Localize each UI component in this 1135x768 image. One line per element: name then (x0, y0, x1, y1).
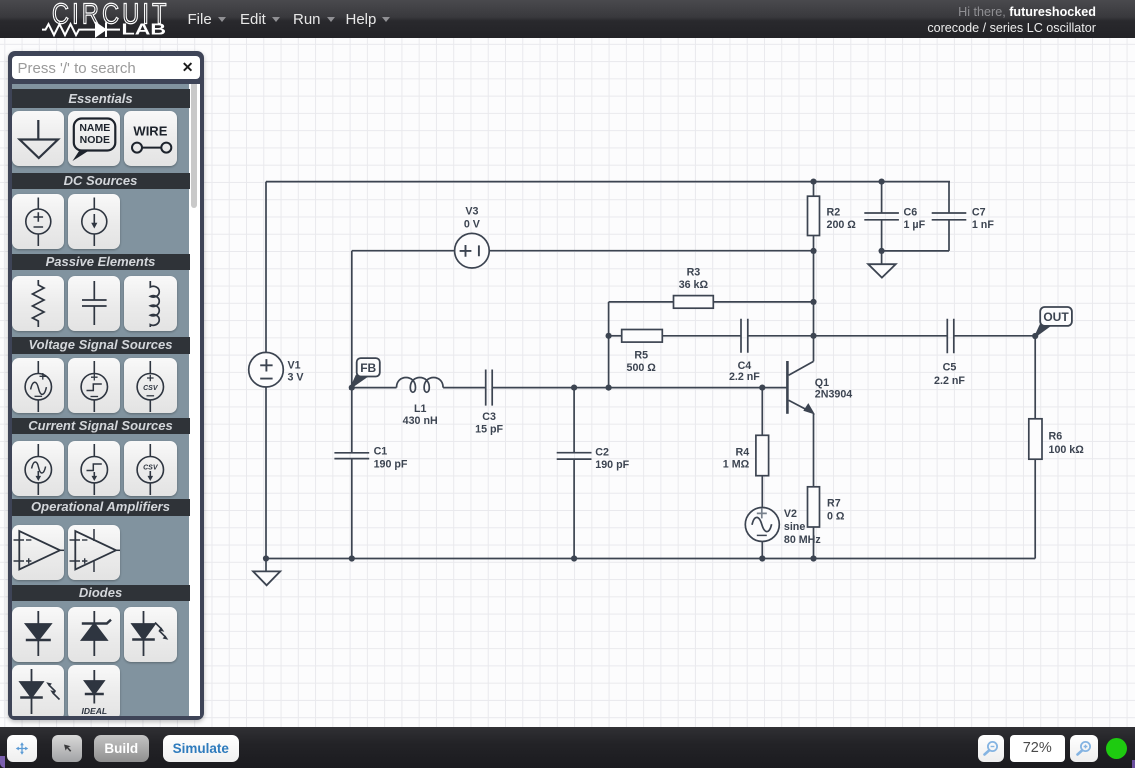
svg-text:CSV: CSV (143, 385, 159, 392)
junction R7 bottom (810, 555, 816, 561)
label C2 value (595, 446, 629, 471)
wire V3 left (352, 250, 455, 252)
capacitor C7 (932, 182, 967, 251)
label C6 value (904, 207, 926, 232)
label R6 value (1049, 431, 1085, 456)
junction R5 branch base rail (606, 385, 612, 391)
resistor R6 (1029, 336, 1042, 559)
palette step current source button (68, 441, 121, 496)
svg-text:WIRE: WIRE (133, 123, 167, 138)
label V2 value (784, 508, 821, 546)
ground (C6/C7) (868, 251, 896, 278)
wire C6-C7 bottom rail (882, 250, 949, 252)
svg-text:190 pF: 190 pF (595, 459, 629, 471)
svg-text:NODE: NODE (79, 134, 109, 146)
svg-text:IDEAL: IDEAL (81, 706, 107, 716)
purple corner left (0, 756, 5, 768)
svg-text:36 kΩ: 36 kΩ (679, 279, 709, 291)
palette DC voltage source button (12, 194, 65, 249)
cursor tool button (52, 735, 82, 762)
wire emitter vertical (813, 413, 815, 486)
junction C6 bottom / ground rail (879, 248, 885, 254)
node OUT flag (1035, 307, 1072, 336)
junction V1 bottom (263, 555, 269, 561)
palette step voltage source button (68, 358, 121, 413)
svg-text:FB: FB (360, 361, 376, 375)
palette ground button (12, 111, 65, 166)
svg-text:C5: C5 (943, 361, 957, 373)
label C5 value (934, 361, 965, 387)
junction C2 top (571, 385, 577, 391)
svg-text:R6: R6 (1049, 431, 1063, 443)
svg-text:Q1: Q1 (815, 377, 829, 389)
svg-text:15 pF: 15 pF (475, 424, 503, 436)
svg-text:C1: C1 (374, 446, 388, 458)
zoom out button (978, 735, 1004, 762)
wire top rail (266, 181, 950, 183)
svg-text:OUT: OUT (1043, 310, 1069, 324)
capacitor C3 (486, 370, 493, 406)
junction C6 top rail (879, 179, 885, 185)
palette capacitor button (68, 276, 121, 331)
voltage source V2 (745, 508, 779, 542)
junction R3 rail right (810, 299, 816, 305)
wire middle rail left (352, 387, 397, 389)
node FB flag (351, 358, 380, 388)
status green circle (1106, 738, 1127, 759)
zoom level box (1010, 735, 1066, 762)
wire R7 to bottom rail (813, 527, 815, 559)
svg-text:sine: sine (784, 521, 805, 533)
label C4 value (729, 360, 760, 383)
palette wire button (124, 111, 177, 166)
resistor R7 (808, 487, 820, 527)
junction V2 bottom (759, 555, 765, 561)
svg-text:R4: R4 (736, 447, 750, 459)
svg-text:200 Ω: 200 Ω (827, 219, 857, 231)
svg-text:CSV: CSV (143, 464, 159, 471)
inductor L1 (397, 377, 444, 392)
palette name node button (68, 111, 121, 166)
svg-text:C3: C3 (482, 411, 496, 423)
Simulate button (163, 735, 239, 762)
palette CSV voltage source button (124, 358, 177, 413)
palette DC current source button (68, 194, 121, 249)
wire left vertical (V1 bottom) (265, 387, 267, 559)
svg-text:2.2 nF: 2.2 nF (729, 371, 760, 383)
wire bottom rail (266, 558, 1035, 560)
wire C5 to OUT node (954, 335, 1035, 337)
junction V3 rail / R2 bottom (810, 248, 816, 254)
voltage source V1 (249, 352, 284, 387)
junction C2 bottom (571, 555, 577, 561)
wire L1 to C3 (443, 387, 486, 389)
svg-text:0 V: 0 V (464, 218, 481, 230)
label L1 value (403, 403, 438, 427)
wire C4 to collector node (748, 335, 814, 337)
svg-text:190 pF: 190 pF (374, 458, 408, 470)
label R5 value (627, 349, 657, 374)
svg-text:C6: C6 (904, 207, 918, 219)
palette inductor button (124, 276, 177, 331)
purple corner right (1132, 760, 1135, 768)
label R2 value (827, 207, 857, 232)
wire R5 to C4 (662, 335, 741, 337)
transistor Q1 (787, 361, 814, 414)
resistor R3 (674, 296, 714, 309)
palette resistor button (12, 276, 65, 331)
svg-text:V2: V2 (784, 508, 797, 520)
svg-text:1 MΩ: 1 MΩ (723, 459, 750, 471)
junction R2 top rail (810, 179, 816, 185)
wire left vertical (V1 top) (265, 182, 267, 353)
wire R3 rail left (609, 301, 674, 303)
ground (bottom left) (253, 559, 280, 586)
palette sine voltage source button (12, 358, 65, 413)
palette CSV current source button (124, 441, 177, 496)
svg-text:500 Ω: 500 Ω (627, 362, 657, 374)
label V3 value (464, 206, 481, 231)
label C1 value (374, 446, 408, 471)
svg-text:100 kΩ: 100 kΩ (1049, 444, 1085, 456)
svg-text:1 µF: 1 µF (904, 219, 926, 231)
junction node OUT (1032, 333, 1038, 339)
svg-text:1 nF: 1 nF (972, 219, 994, 231)
voltage source V3 (455, 233, 490, 268)
wire R5 branch vertical (608, 302, 610, 388)
capacitor C1 (334, 388, 369, 559)
palette op-amp with power pins button (68, 525, 121, 580)
label C3 value (475, 411, 503, 436)
wire R3 rail right (713, 301, 813, 303)
svg-text:430 nH: 430 nH (403, 415, 438, 427)
label Q1 type (815, 377, 852, 400)
wire right vertical R2-collector (813, 236, 815, 362)
capacitor C5 (947, 319, 954, 354)
capacitor C4 (741, 319, 748, 353)
resistor R5 (622, 330, 663, 343)
label R4 value (723, 447, 750, 471)
palette LED button (124, 607, 177, 662)
junction node FB (349, 385, 355, 391)
move tool button (7, 735, 37, 762)
palette diode button (12, 607, 65, 662)
capacitor C2 (557, 388, 592, 559)
svg-text:80 MHz: 80 MHz (784, 534, 821, 546)
resistor R2 (808, 182, 820, 236)
svg-text:L1: L1 (414, 403, 427, 415)
svg-text:2N3904: 2N3904 (815, 389, 852, 401)
label V1 value (288, 360, 305, 384)
label R3 value (679, 267, 709, 292)
palette photodiode button (12, 665, 65, 720)
junction R4 top (759, 385, 765, 391)
junction R5 rail left (606, 333, 612, 339)
capacitor C6 (864, 182, 899, 251)
svg-text:C7: C7 (972, 207, 986, 219)
wire V2 to bottom rail (761, 542, 763, 559)
palette sine current source button (12, 441, 65, 496)
palette zener diode button (68, 607, 121, 662)
label C7 value (972, 207, 994, 232)
zoom in button (1070, 735, 1098, 762)
palette op-amp button (12, 525, 65, 580)
svg-text:0 Ω: 0 Ω (827, 510, 845, 522)
svg-text:R7: R7 (827, 498, 841, 510)
wire V3 right (489, 250, 813, 252)
svg-text:C2: C2 (595, 446, 609, 458)
wire C3 to Q1 base (492, 387, 787, 389)
svg-text:R3: R3 (687, 267, 701, 279)
svg-text:LAB: LAB (122, 22, 167, 39)
svg-text:3 V: 3 V (288, 372, 305, 384)
wire collector rail to C5 (814, 335, 948, 337)
svg-text:R5: R5 (634, 349, 648, 361)
svg-text:R2: R2 (827, 207, 841, 219)
junction collector rail (810, 333, 816, 339)
resistor R4 (756, 388, 769, 508)
junction C1 bottom (349, 555, 355, 561)
svg-text:V1: V1 (288, 360, 301, 372)
label R7 value (827, 498, 845, 523)
wire R5 rail left (609, 335, 622, 337)
svg-text:2.2 nF: 2.2 nF (934, 375, 965, 387)
svg-text:C4: C4 (738, 360, 752, 372)
palette ideal diode button (68, 665, 121, 720)
svg-text:NAME: NAME (79, 122, 110, 134)
wire V3 branch vertical (351, 251, 353, 388)
Build button (94, 735, 149, 762)
svg-text:V3: V3 (465, 206, 478, 218)
